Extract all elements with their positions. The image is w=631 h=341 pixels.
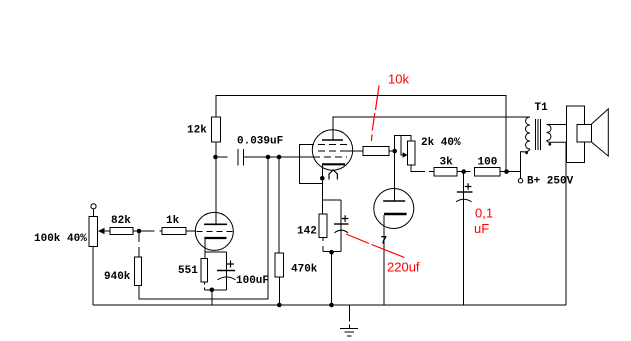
svg-text:B+ 250V: B+ 250V — [527, 176, 574, 188]
node dot 470k top — [277, 155, 282, 160]
pentode plate — [322, 139, 343, 141]
svg-text:uF: uF — [474, 221, 489, 236]
pentode grid g3 — [318, 144, 347, 146]
wire secondary top to speaker — [547, 124, 568, 126]
triode cathode — [204, 237, 226, 239]
svg-text:100: 100 — [478, 157, 498, 169]
wire node up to 2k pot top strap — [395, 136, 411, 152]
svg-text:12k: 12k — [187, 125, 207, 137]
wire top rail B+ node — [216, 96, 506, 172]
wire node to 1k dashed — [139, 230, 162, 232]
resistor R 551 — [201, 258, 208, 282]
wire dash to 100 — [466, 171, 470, 173]
svg-text:220uf: 220uf — [387, 260, 420, 275]
wire coupling cap to pentode grid g1 — [244, 156, 314, 158]
terminal 100k pot top circle — [91, 204, 96, 209]
transformer T1 secondary winding — [547, 125, 552, 141]
triode grid — [197, 230, 233, 232]
tube triode U1 envelope — [195, 212, 233, 250]
wire 82k to node — [133, 230, 139, 232]
speaker body — [567, 106, 585, 163]
wire 100k pot bottom lead — [92, 246, 94, 305]
pentode grid g2 — [318, 150, 344, 152]
speaker cone — [591, 109, 608, 156]
lower tube cathode — [384, 213, 407, 216]
wire pentode g3-cathode strap — [300, 145, 323, 184]
wire node down to lower tube plate — [394, 151, 396, 201]
phase dot primary — [525, 151, 528, 154]
svg-text:100uF: 100uF — [236, 275, 269, 287]
ground symbol — [340, 305, 358, 336]
tube lower U3 envelope — [374, 189, 414, 229]
wire triode cathode to 551 — [205, 239, 227, 258]
arrow 100k wiper — [98, 228, 105, 234]
svg-text:2k 40%: 2k 40% — [421, 137, 461, 149]
capacitor C 220uf electrolytic — [334, 223, 349, 225]
wire lower tube cathode to rail — [383, 215, 385, 305]
wire node to coupling cap — [216, 156, 228, 158]
capacitor C 0.039uF — [238, 149, 244, 166]
wire ground rail — [93, 304, 566, 306]
wire speaker return to rail — [565, 142, 567, 305]
wire 2k bottom to 3k — [411, 165, 434, 172]
wire 940k top lead dashed — [138, 231, 140, 257]
svg-text:940k: 940k — [104, 271, 131, 283]
lower tube plate — [383, 200, 405, 202]
wire 3k to node — [457, 171, 464, 173]
wire 12k bottom to triode plate — [215, 142, 217, 224]
potentiometer R 100k — [89, 217, 98, 247]
wire g2 to 10k — [344, 150, 363, 152]
speaker driver square — [577, 124, 592, 142]
pentode cathode — [322, 163, 345, 165]
wire pentode plate to transformer primary — [333, 117, 530, 140]
resistor R 82k — [110, 227, 133, 234]
wire 142 bottom lead dashed — [323, 238, 341, 252]
svg-text:1k: 1k — [166, 215, 180, 227]
resistor R 940k — [135, 257, 142, 286]
wire 2k pot wiper — [401, 136, 403, 156]
pointer line 220uf red — [346, 234, 405, 258]
node dot under 12k — [213, 155, 218, 160]
wire 10k to node — [389, 150, 395, 152]
wire 100 to B+ corner — [500, 171, 521, 173]
terminal B+ circle — [518, 179, 522, 183]
node dot feedback — [266, 155, 271, 160]
node after 10k — [392, 149, 397, 154]
wire grid leak branch to 470k — [278, 157, 280, 305]
transformer T1 core — [536, 119, 541, 150]
node grid junction — [137, 229, 142, 234]
resistor R 10k — [363, 147, 389, 156]
node 142/cap junction — [329, 250, 334, 255]
transformer T1 primary winding — [526, 117, 531, 149]
wire pentode cathode down to 142 network — [323, 165, 342, 252]
wire 551 bottom dashed — [204, 282, 226, 290]
wire junction to rail — [211, 290, 213, 305]
svg-text:3k: 3k — [440, 157, 454, 169]
node dot on rail — [329, 303, 334, 308]
capacitor C 0,1uF electrolytic — [463, 172, 465, 305]
node cathode network junction — [210, 288, 215, 293]
triode plate — [204, 223, 227, 225]
node pentode cathode junction — [320, 176, 325, 181]
svg-text:551: 551 — [178, 265, 198, 277]
wire primary bottom lead down to B+ terminal — [520, 152, 522, 179]
svg-text:470k: 470k — [291, 264, 318, 276]
resistor R 1k — [162, 227, 186, 234]
svg-text:82k: 82k — [111, 215, 131, 227]
wire junction down to ground rail — [331, 252, 333, 305]
resistor R 142 — [319, 214, 327, 238]
svg-text:7: 7 — [381, 236, 388, 248]
node B+ junction — [504, 169, 509, 174]
pentode heater — [329, 170, 337, 180]
resistor R 3k — [434, 167, 457, 176]
svg-text:10k: 10k — [388, 72, 409, 87]
wire feedback branch down to 940k — [139, 157, 268, 299]
tube pentode U2 envelope — [312, 130, 352, 170]
capacitor C 100uF electrolytic — [226, 252, 228, 290]
resistor R 470k — [275, 253, 284, 277]
pentode grid g1 — [313, 156, 347, 158]
svg-text:T1: T1 — [535, 102, 549, 114]
svg-text:142: 142 — [297, 226, 317, 238]
resistor R 100 — [475, 167, 500, 176]
node dot 470k on rail — [277, 303, 282, 308]
phase dot secondary — [548, 143, 551, 146]
svg-text:0.039uF: 0.039uF — [237, 136, 283, 148]
resistor R 12k — [212, 117, 221, 142]
svg-text:100k 40%: 100k 40% — [34, 233, 87, 245]
wire 1k to triode grid — [186, 230, 196, 232]
potentiometer R 2k — [408, 141, 416, 165]
pointer line 10k red — [371, 86, 379, 142]
svg-text:0,1: 0,1 — [475, 206, 493, 221]
node after 3k — [461, 169, 466, 174]
arrow 2k wiper — [403, 152, 408, 157]
